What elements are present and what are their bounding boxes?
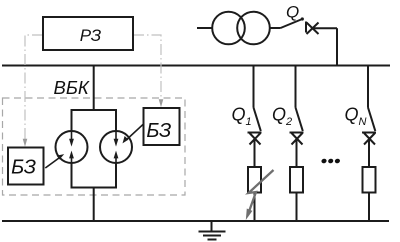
svg-text:Q: Q: [286, 3, 299, 22]
svg-text:ВБК: ВБК: [54, 77, 90, 98]
svg-text:РЗ: РЗ: [80, 26, 102, 45]
svg-text:БЗ: БЗ: [11, 157, 36, 179]
svg-text:БЗ: БЗ: [146, 120, 171, 142]
